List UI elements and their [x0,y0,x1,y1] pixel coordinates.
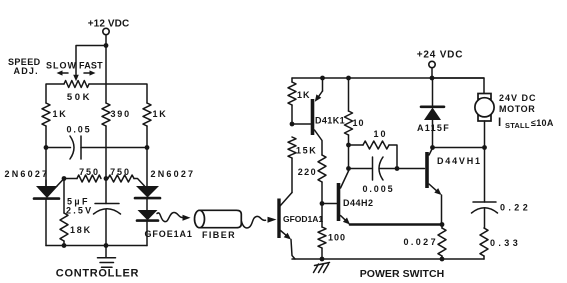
transistor D44H2 [337,183,341,221]
gate wire Q1 [57,179,65,187]
svg-text:2N6027: 2N6027 [151,169,196,179]
wire motor to collector node [484,121,486,148]
motor M1 24VDC [475,98,494,117]
LED GFOE1A1 [138,210,158,220]
wire right rail to PUT [146,126,148,186]
svg-text:1K: 1K [297,90,311,100]
wire 1K to base node [291,105,293,124]
svg-text:+24 VDC: +24 VDC [417,50,463,61]
wire +12VDC to wiper [76,46,106,75]
arrow fast (right) [84,72,90,74]
wire 0.22 to 0.33 [484,208,486,228]
motor brushes [478,94,491,100]
svg-text:10: 10 [373,129,387,139]
wire +12VDC terminal to rail [105,35,107,46]
svg-text:0.33: 0.33 [490,238,521,248]
bottom rail controller [46,245,147,247]
svg-text:CONTROLLER: CONTROLLER [56,268,139,280]
resistor 1K ps [288,82,296,105]
svg-text:0.22: 0.22 [500,203,531,213]
svg-text:390: 390 [111,109,131,119]
capacitor 0.05 wire left [46,147,71,149]
svg-text:15K: 15K [296,146,317,156]
svg-text:GFOE1A1: GFOE1A1 [145,229,193,239]
svg-text:1K: 1K [153,109,168,119]
svg-text:FAST: FAST [79,61,103,71]
svg-text:100: 100 [328,233,346,243]
svg-text:1K: 1K [53,109,68,119]
top rail power switch [292,77,484,79]
svg-text:D41K1: D41K1 [315,116,345,126]
resistor 0.027 [438,228,446,256]
wire 18K node down [63,179,65,214]
wire +24 terminal [431,68,433,78]
PUT Q2 2N6027 [136,186,159,198]
capacitor 5uF [95,203,119,205]
resistor 0.33 [480,228,488,256]
wire detector collector up [291,158,293,193]
fiber cylinder [200,210,242,227]
wire 10 vert bottom [348,135,350,169]
junction motor bottom node [482,145,487,150]
resistor 390 [102,103,110,126]
svg-text:0.005: 0.005 [362,184,394,194]
svg-text:STALL: STALL [505,121,530,130]
junction cap node right [395,166,400,171]
transistor D44VH1 [425,152,429,188]
capacitor 0.05 [70,136,74,159]
svg-text:FIBER: FIBER [202,230,236,240]
snubber wire top [484,148,486,203]
terminal +12VDC [103,28,109,34]
svg-text:18K: 18K [70,225,92,235]
svg-text:GFOD1A1: GFOD1A1 [283,214,323,224]
base wire D41K1 [292,123,311,125]
junction bottom 0.027 [440,257,445,262]
svg-text:50K: 50K [67,92,92,103]
wire 750 to Q2 gate [134,179,145,187]
base wire D44H2 [322,203,337,205]
resistor 750 second [108,175,134,182]
junction +12VDC node [104,43,109,48]
wire 18K bottom [63,241,65,246]
resistor 100 [318,227,326,248]
terminal +24VDC [429,61,435,67]
svg-text:≤10A: ≤10A [531,118,554,128]
phototransistor GFOD1A1 [277,199,280,239]
wire 5uF bottom [105,210,107,246]
resistor 750 first [77,175,101,182]
junction diode anode node [430,145,435,150]
junction +24 node [430,76,435,81]
junction base node D41K1 [290,122,295,127]
capacitor 0.05 wire right [81,147,147,149]
emitter run D44H2 to 0.027 [350,223,442,226]
arrow slow (left) [62,72,68,74]
svg-text:D44H2: D44H2 [343,198,374,208]
wire pot right to right rail [89,84,147,103]
junction bottom 18K [62,243,67,248]
bottom rail power switch [292,258,484,260]
junction mid 750 node [104,176,109,181]
junction D44H2 base node [320,201,325,206]
svg-text:0.027: 0.027 [403,237,438,247]
PUT Q1 2N6027 [36,186,58,198]
svg-text:2N6027: 2N6027 [5,169,50,179]
junction Q1 gate node [62,176,67,181]
resistor 220 [318,155,326,182]
wire gate node to 750 [64,178,77,180]
collector wire D44VH1 to motor [433,147,485,149]
wire left rail under 1K [45,126,47,186]
optical arrow LED to fiber [157,213,183,222]
potentiometer 50K [64,81,89,88]
wire 1K top corner [291,78,293,82]
motor branch wire [432,78,484,94]
ground controller [105,246,107,258]
chassis ground [315,263,330,266]
junction bottom mid [104,243,109,248]
wire mid rail 390 top [105,46,107,104]
svg-text:POWER SWITCH: POWER SWITCH [360,268,445,280]
junction right cap node [145,145,150,150]
svg-text:24V DC: 24V DC [499,93,537,103]
resistor 15K [288,137,296,158]
wire pot left to left rail [46,84,64,103]
junction bottom 100 [320,257,325,262]
junction 10h left [346,143,351,148]
resistor 10 horizontal [363,141,389,149]
junction left cap node [44,145,49,150]
svg-text:A115F: A115F [417,123,450,133]
resistor 18K [60,213,68,241]
wire Q1 cathode down [45,199,47,246]
svg-text:SLOW: SLOW [46,61,77,71]
resistor R1K left [42,103,50,126]
svg-text:0.05: 0.05 [66,125,91,135]
svg-text:D44VH1: D44VH1 [437,156,482,166]
wire 10 vert top [348,78,350,111]
svg-text:ADJ.: ADJ. [14,66,39,76]
resistor 10 vertical [345,111,353,135]
junction cap node left [346,166,351,171]
diode A115F [432,78,434,107]
wire LED cathode down [146,221,148,246]
capacitor 0.22 [473,201,496,203]
junction D41K1 emitter top [320,76,325,81]
wire Q2 cathode to LED [146,198,148,210]
svg-text:220: 220 [298,167,317,177]
svg-text:750: 750 [110,167,131,177]
wiper arrow of R50K [73,75,79,82]
junction emitter 0.027 node [440,222,445,227]
svg-text:2.5V: 2.5V [66,206,93,216]
wire 220 to base node [321,182,323,204]
resistor R1K right [143,103,151,126]
junction 10 vert top [346,76,351,81]
svg-text:MOTOR: MOTOR [499,104,535,114]
optical arrow fiber to detector [242,216,266,228]
svg-text:+12 VDC: +12 VDC [88,18,130,29]
svg-text:750: 750 [79,167,100,177]
svg-text:10: 10 [353,118,365,128]
wire mid rail 390 bottom [105,126,107,204]
svg-text:I: I [498,117,501,129]
transistor D41K1 [311,99,315,135]
capacitor 0.005 [349,168,373,170]
